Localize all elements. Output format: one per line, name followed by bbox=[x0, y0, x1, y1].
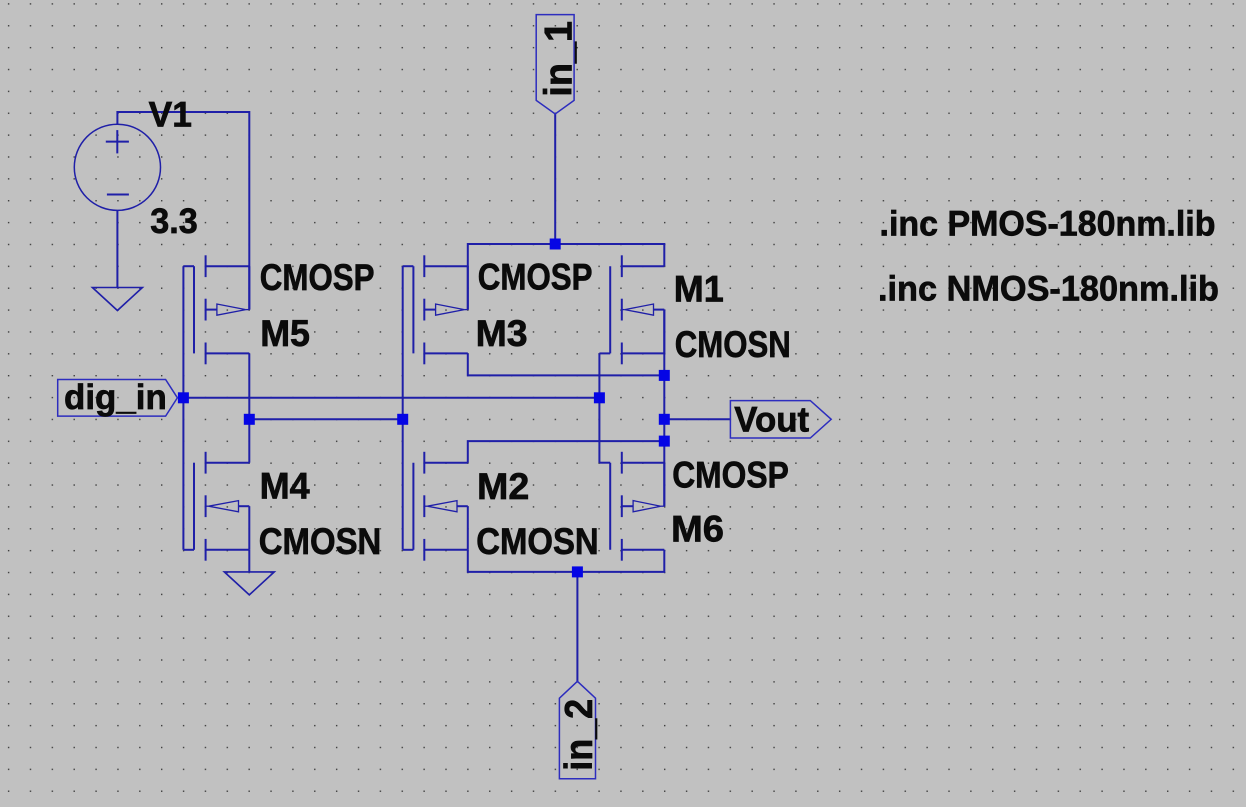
svg-text:.inc NMOS-180nm.lib: .inc NMOS-180nm.lib bbox=[878, 269, 1219, 308]
svg-text:CMOSN: CMOSN bbox=[476, 521, 599, 562]
svg-text:M2: M2 bbox=[477, 466, 529, 507]
svg-text:dig_in: dig_in bbox=[64, 378, 167, 417]
svg-text:CMOSP: CMOSP bbox=[672, 455, 789, 496]
svg-text:in_2: in_2 bbox=[558, 699, 601, 771]
svg-text:V1: V1 bbox=[149, 95, 192, 134]
svg-text:CMOSN: CMOSN bbox=[675, 324, 791, 365]
svg-text:M3: M3 bbox=[476, 313, 528, 354]
svg-text:in_1: in_1 bbox=[537, 21, 580, 97]
svg-text:3.3: 3.3 bbox=[150, 202, 198, 241]
svg-text:CMOSP: CMOSP bbox=[260, 257, 375, 298]
svg-text:M5: M5 bbox=[260, 313, 310, 354]
svg-text:Vout: Vout bbox=[734, 401, 809, 440]
svg-text:CMOSN: CMOSN bbox=[259, 521, 382, 562]
svg-text:.inc PMOS-180nm.lib: .inc PMOS-180nm.lib bbox=[880, 204, 1216, 243]
svg-text:M1: M1 bbox=[674, 268, 724, 309]
svg-text:M6: M6 bbox=[671, 509, 724, 550]
svg-text:M4: M4 bbox=[260, 465, 311, 506]
svg-text:CMOSP: CMOSP bbox=[478, 257, 593, 298]
